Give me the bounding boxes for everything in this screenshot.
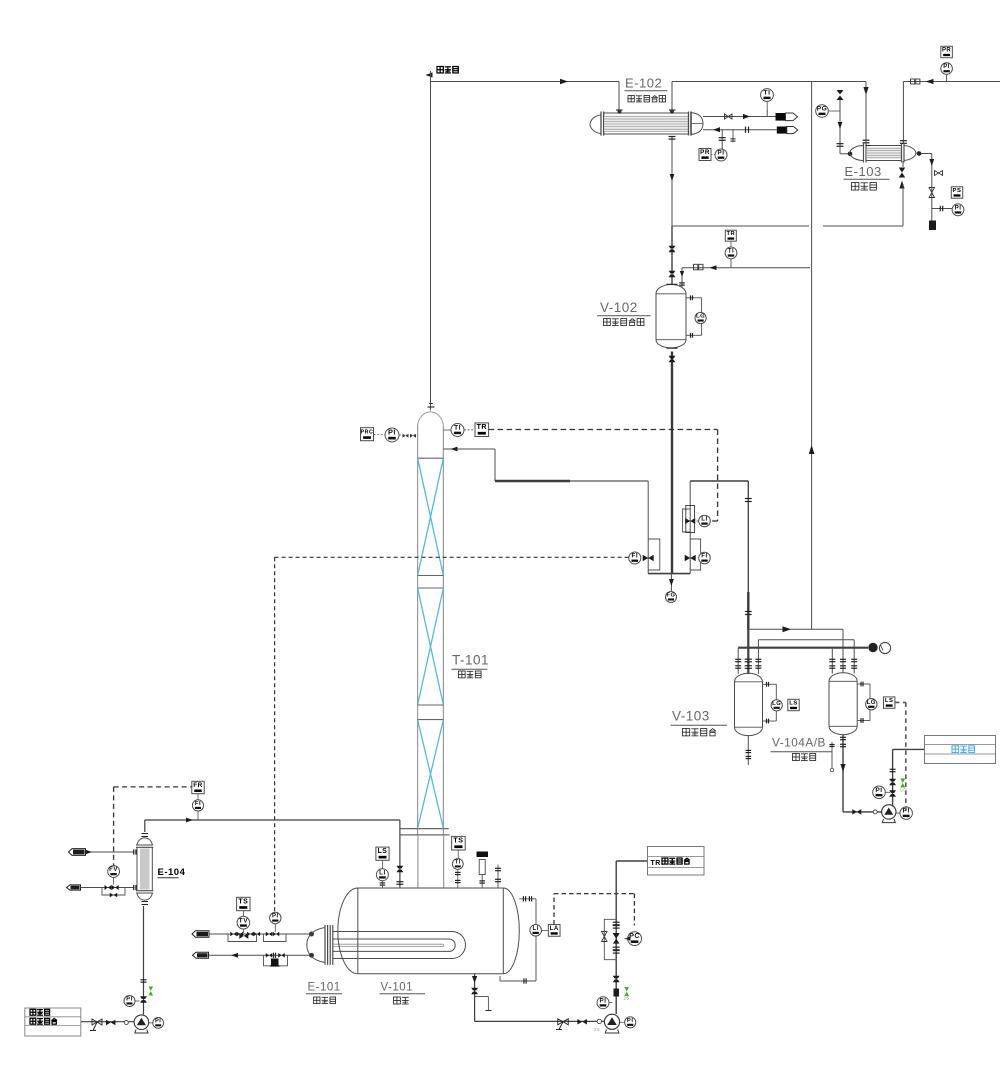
instrument FR feed line — [192, 781, 204, 800]
instrument LS V-104 — [884, 697, 895, 708]
wire feed to V-101 — [145, 818, 404, 888]
valve check green feed — [149, 987, 154, 996]
pump P-101 feed — [134, 1015, 149, 1033]
off-page connector liquid out — [777, 127, 798, 134]
wire V-102 gas outlet — [679, 264, 810, 288]
svg-text:25: 25 — [594, 1027, 600, 1032]
label V-104A/B — [771, 736, 833, 761]
label E-101 — [306, 982, 342, 1004]
treatment box TR — [648, 847, 705, 876]
svg-text:E-101: E-101 — [308, 982, 341, 994]
instrument PI E-103 drain — [952, 204, 964, 216]
valve station E-104 — [81, 885, 136, 897]
svg-text:LS: LS — [378, 848, 388, 855]
svg-text:PI: PI — [600, 997, 607, 1004]
wire V-102 inlet — [669, 226, 676, 285]
svg-text:FG: FG — [666, 593, 675, 599]
instrument TS V-101 — [452, 836, 466, 858]
off-page connector condensate — [193, 952, 209, 958]
wire V-104 vent stub — [829, 742, 834, 772]
svg-text:PI: PI — [126, 997, 132, 1003]
svg-text:FI: FI — [195, 801, 201, 807]
wire V-103 drain — [746, 736, 752, 765]
node capped drain — [929, 221, 936, 231]
svg-text:PI: PI — [155, 1019, 161, 1025]
pump P-102 bottoms — [604, 1014, 619, 1033]
wire to treatment box — [616, 860, 647, 862]
wire manifold — [648, 573, 690, 575]
valve check green bottoms — [624, 987, 630, 1001]
wire header down to E-103 shell inlet — [863, 82, 870, 144]
label V-101 — [380, 982, 426, 1004]
svg-text:PI: PI — [955, 204, 962, 211]
label E-102 — [625, 76, 668, 102]
vessel V-102 — [656, 284, 686, 348]
control valve reflux A — [643, 555, 654, 562]
svg-text:E-102: E-102 — [625, 76, 662, 91]
svg-text:TR: TR — [477, 424, 487, 431]
wire E-104 shell inlet upper — [86, 849, 136, 854]
wire product pump discharge — [889, 749, 924, 806]
level gauge loop V-104 — [857, 682, 870, 723]
valve lock green — [900, 779, 907, 793]
instrument PI feed pump discharge — [149, 1018, 164, 1029]
heat exchanger E-103 — [850, 144, 917, 163]
svg-text:V-103: V-103 — [672, 709, 710, 724]
label vent 排大气 — [437, 67, 458, 73]
column packing bed 3 — [418, 720, 444, 829]
svg-text:TS: TS — [453, 838, 463, 845]
wire V-101 bottoms drain — [471, 974, 478, 1022]
instrument PI steam — [270, 912, 281, 932]
svg-text:V-102: V-102 — [600, 300, 638, 315]
pressure station steam — [264, 932, 287, 942]
wire condensate header to E-103 — [672, 161, 903, 226]
wire distillate downcomer to V-103 — [745, 481, 752, 630]
wire E-102 condensate downcomer — [669, 136, 676, 226]
label V-103 — [671, 709, 728, 736]
level loop V-101 — [500, 896, 536, 983]
svg-text:PI: PI — [388, 428, 396, 437]
level gauge loop V-102 — [686, 295, 702, 337]
instrument B upper — [697, 515, 711, 527]
vessel V-101 — [338, 888, 519, 974]
svg-text:LS: LS — [789, 701, 798, 707]
svg-text:FI: FI — [701, 553, 707, 560]
bypass loop bottoms — [602, 919, 617, 959]
instrument FI feed line — [192, 800, 203, 820]
wire stub to PI drain — [932, 206, 952, 212]
vessel V-104A/B — [829, 673, 857, 735]
instrument LG V-103 — [771, 700, 782, 711]
svg-text:PR: PR — [700, 149, 710, 156]
instrument TI E-102 outlet — [761, 89, 774, 117]
column T-101 shell — [400, 404, 450, 888]
wire overhead header to E-102 — [431, 79, 620, 110]
svg-text:E-104: E-104 — [158, 867, 186, 878]
instrument TI V-101 — [452, 859, 463, 888]
svg-text:LI: LI — [532, 925, 538, 932]
valve feed suction gate — [90, 1019, 102, 1031]
bypass loop A — [648, 539, 660, 570]
level gauge loop V-103 — [763, 682, 777, 724]
wire reflux header — [495, 480, 648, 482]
svg-text:LG: LG — [772, 701, 781, 707]
label V-102 — [597, 300, 651, 325]
node steam inlet E-101 — [310, 932, 314, 936]
valve E-103 bottom — [899, 168, 906, 189]
heat exchanger E-101 head — [307, 925, 333, 965]
signal level interlock to pump — [895, 702, 906, 812]
instrument TI V-102 inlet — [725, 247, 737, 268]
svg-text:TS: TS — [238, 899, 248, 906]
svg-text:LS: LS — [885, 698, 894, 704]
svg-text:LG: LG — [867, 700, 876, 706]
instrument PI vent header — [941, 63, 953, 82]
feed tank box — [25, 1008, 81, 1036]
wire bottoms pump discharge — [613, 861, 620, 1014]
signal TR to reflux valve — [489, 430, 718, 522]
label T-101 — [452, 653, 490, 678]
instrument TR V-102 inlet — [725, 230, 736, 247]
svg-text:TI: TI — [455, 860, 461, 866]
svg-text:25: 25 — [624, 996, 630, 1001]
off-page connector cold stream — [67, 885, 81, 890]
instrument TS steam — [237, 897, 250, 916]
svg-text:LG: LG — [696, 314, 705, 320]
svg-text:TI: TI — [454, 425, 461, 432]
instrument PI feed pump — [124, 996, 140, 1007]
instrument PS E-103 drain — [951, 187, 962, 198]
wire E-102 liquid outlet lower — [703, 127, 777, 133]
control valve B lower — [685, 555, 696, 562]
instrument PI E-102 — [715, 149, 727, 161]
wire feed riser from pump — [140, 906, 147, 1015]
svg-text:V-104A/B: V-104A/B — [772, 736, 826, 750]
column bed support 2 — [418, 705, 444, 720]
wire V-103 to V-104 upper — [755, 640, 857, 674]
wire E-103 vapor outlet riser — [900, 82, 1000, 144]
svg-text:TV: TV — [239, 917, 249, 924]
heat exchanger E-104 — [136, 834, 153, 905]
svg-text:E-103: E-103 — [845, 164, 882, 179]
instrument LI V-101 loop — [530, 925, 542, 937]
wire reflux control riser A — [647, 481, 649, 574]
svg-text:PI: PI — [272, 914, 279, 920]
svg-text:TI: TI — [728, 248, 735, 255]
svg-text:PRC: PRC — [361, 430, 374, 436]
instrument PI column top — [385, 428, 418, 442]
wire stub to PI — [719, 130, 726, 149]
wire drain branch — [475, 997, 492, 1011]
svg-text:PI: PI — [627, 1018, 634, 1024]
svg-text:FR: FR — [193, 782, 203, 789]
thermowell V-101 — [477, 852, 489, 888]
svg-text:PS: PS — [953, 188, 962, 194]
wire E-103 drain right — [917, 152, 942, 221]
svg-text:PC: PC — [629, 931, 640, 940]
instrument PI bottoms pump — [620, 1017, 636, 1028]
steam control station — [228, 932, 260, 942]
valve feed suction — [106, 1020, 128, 1026]
instrument PI discharge — [873, 786, 890, 799]
instrument LG V-104 — [866, 699, 877, 710]
svg-text:LI: LI — [379, 869, 386, 876]
signal to reflux valves — [275, 556, 629, 558]
node vent-to-atmosphere — [426, 71, 433, 78]
node vent to atmosphere V-103 — [869, 642, 891, 653]
instrument B lower — [699, 552, 711, 564]
wire E-102 outlet header — [672, 82, 866, 111]
instrument PR E-102 — [699, 149, 715, 161]
bypass loop B — [690, 539, 700, 570]
instrument TR column top — [464, 423, 489, 437]
instrument FV E-104 — [108, 866, 120, 885]
wire condensate return — [209, 953, 314, 958]
svg-text:LI: LI — [701, 516, 707, 523]
wire pump suction V-101 — [475, 1020, 605, 1022]
off-page connector gas out — [776, 113, 798, 121]
instrument PR vent header — [941, 46, 953, 58]
svg-text:TI: TI — [764, 90, 771, 97]
instrument PI product pump — [896, 807, 912, 819]
column bed support 1 — [418, 576, 444, 589]
svg-text:FI: FI — [631, 553, 638, 560]
instrument FE reflux A — [629, 552, 641, 564]
wire steam line — [209, 933, 310, 935]
signal to steam valve — [274, 557, 276, 911]
instrument flow element below manifold — [666, 574, 677, 603]
wire small drain stub — [730, 130, 735, 142]
off-page connector hot stream in — [69, 849, 86, 856]
svg-text:LO: LO — [900, 788, 907, 793]
svg-text:V-101: V-101 — [381, 982, 414, 994]
instrument TI column top — [443, 424, 464, 437]
valve bottoms gate — [556, 1019, 568, 1030]
nozzle stub V-101 — [495, 865, 501, 888]
svg-text:FV: FV — [109, 866, 118, 873]
steam trap station — [264, 953, 288, 966]
svg-text:PI: PI — [943, 63, 950, 70]
wire E-103 tube inlet line — [837, 90, 852, 156]
column packing bed 2 — [418, 588, 444, 705]
valve on vent header — [911, 79, 934, 84]
wire vapor balance line V-103 to vent header — [809, 82, 815, 630]
wire crossover to V-104 center — [748, 626, 846, 673]
wire V-104 product line — [840, 735, 882, 812]
wire distillate header — [690, 480, 748, 482]
off-page connector steam — [192, 931, 209, 938]
label E-104 — [158, 867, 186, 878]
label E-103 — [844, 164, 890, 190]
signal FR to feed valve — [114, 787, 192, 866]
instrument LS V-103 — [788, 699, 799, 710]
wire V-103 feed nozzle — [745, 630, 752, 674]
vessel V-103 — [735, 673, 763, 735]
instrument LI V-101 — [376, 869, 388, 888]
wire reflux into column — [443, 447, 495, 481]
instrument LS V-101 — [376, 847, 389, 869]
instrument PG E-103 — [816, 105, 840, 118]
svg-text:PG: PG — [817, 106, 828, 113]
heat exchanger E-102 — [590, 110, 703, 136]
control valve B upper — [683, 506, 696, 533]
wire distillate riser B — [689, 481, 691, 574]
valve bottoms — [577, 1019, 601, 1032]
wire V-102 bottom outlet — [669, 352, 676, 574]
offsite box to tank farm — [925, 736, 996, 764]
wire vent line V-103 — [735, 648, 868, 674]
control valve bottoms assembly — [613, 922, 620, 953]
instrument PI discharge — [597, 997, 613, 1009]
instrument PRC column top — [361, 428, 386, 441]
instrument LSA V-101 — [542, 925, 561, 937]
heat exchanger E-101 U-tubes — [333, 932, 466, 959]
column packing bed 1 — [418, 458, 444, 575]
instrument LG V-102 — [695, 312, 706, 323]
svg-text:LA: LA — [550, 925, 559, 932]
signal LSA to PIC — [554, 894, 634, 926]
svg-text:T-101: T-101 — [452, 653, 489, 668]
svg-text:TR: TR — [726, 231, 735, 237]
pump P-103 product — [882, 805, 896, 823]
svg-text:PI: PI — [875, 787, 882, 794]
svg-text:PR: PR — [942, 48, 951, 54]
instrument PIC bottoms — [625, 931, 642, 945]
valve product line — [852, 809, 877, 815]
instrument TV steam — [237, 916, 250, 933]
wire column overhead riser — [430, 75, 432, 411]
wire tank to feed pump — [81, 1021, 134, 1023]
wire E-102 gas outlet top — [703, 114, 776, 119]
svg-text:PI: PI — [718, 150, 725, 157]
